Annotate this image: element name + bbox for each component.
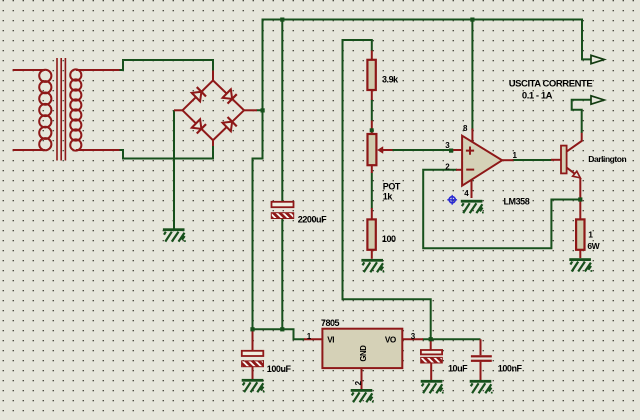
resistor 1 6W	[576, 200, 584, 259]
wire: bridge DC+ junction down-left-down to 7805 input node	[253, 110, 263, 329]
svg-text:VI: VI	[327, 336, 334, 345]
junction node (emitter / feedback)	[578, 197, 582, 201]
svg-text:1k: 1k	[383, 191, 394, 201]
ground (divider bottom)	[361, 259, 384, 273]
bridge rectifier frame	[174, 71, 257, 147]
label 6W	[587, 241, 600, 251]
pin number 2 (op-amp)	[445, 162, 450, 171]
svg-text:2200uF: 2200uF	[298, 214, 327, 224]
ground (100uF)	[242, 379, 265, 393]
svg-text:7805: 7805	[321, 318, 340, 328]
wire: op-amp output to darlington base	[513, 159, 552, 161]
svg-text:VO: VO	[385, 336, 397, 345]
wire: input node to 7805 VI pin	[253, 329, 305, 339]
ground (10uF)	[421, 380, 444, 394]
junction node (rail / 2200uF)	[280, 18, 284, 22]
ground (op-amp pin 4)	[461, 200, 484, 214]
junction node (bridge DC+)	[261, 108, 265, 112]
pin number 1 (op-amp out)	[513, 151, 518, 160]
output terminal arrow 1	[591, 55, 604, 63]
label 1 (resistor value)	[588, 230, 593, 240]
label 3.9k	[382, 74, 399, 84]
svg-text:100nF: 100nF	[498, 364, 523, 374]
label USCITA CORRENTE	[509, 79, 593, 90]
label 7805	[321, 318, 340, 328]
svg-text:0.1 - 1A: 0.1 - 1A	[522, 91, 553, 102]
label 100	[382, 234, 396, 244]
svg-text:GND: GND	[359, 345, 368, 362]
diode D1 top-left	[191, 87, 206, 102]
pin number 8 (op-amp)	[463, 124, 468, 133]
capacitor 2200uF	[271, 202, 293, 219]
wire: 3.9k bottom to POT top	[371, 100, 373, 121]
label GND rotated	[359, 345, 368, 362]
pin number 2 (7805 GND) rotated	[354, 380, 363, 385]
regulator U2 7805	[304, 329, 423, 389]
wire: bridge DC- down to ground	[173, 110, 175, 228]
transformer TR1 secondary winding	[70, 69, 119, 150]
pin number 4 (op-amp)	[464, 189, 469, 198]
label 10uF	[448, 364, 468, 374]
label Darlington	[588, 154, 626, 164]
wire: POT bottom to 100 resistor top	[371, 173, 373, 209]
wire: output terminal 2 to darlington collector	[572, 100, 592, 133]
transformer TR1 core	[57, 58, 65, 161]
svg-text:Darlington: Darlington	[588, 154, 626, 164]
capacitor 10uF	[421, 339, 443, 380]
diode D4 bottom-right	[222, 117, 237, 132]
op-amp U1 LM358	[453, 129, 514, 199]
potentiometer POT 1k	[368, 121, 393, 174]
ground (1 ohm resistor)	[569, 258, 592, 272]
capacitor 100uF	[242, 329, 264, 379]
wire: rail drop to 2200uF top	[281, 20, 283, 202]
ground (bridge DC-)	[163, 228, 186, 242]
ground (7805 GND pin)	[351, 389, 374, 403]
svg-text:USCITA CORRENTE: USCITA CORRENTE	[509, 79, 593, 90]
svg-text:1: 1	[588, 230, 593, 240]
label 100nF	[498, 364, 523, 374]
label LM358	[504, 196, 530, 206]
diode D3 bottom-left	[191, 119, 206, 134]
wire: transformer secondary top to bridge top	[120, 60, 214, 71]
svg-text:3.9k: 3.9k	[382, 74, 399, 84]
transformer TR1 primary winding	[13, 70, 52, 151]
junction node (POT top)	[370, 128, 374, 132]
junction node (VO / 10uF)	[429, 337, 433, 341]
label 2200uF	[298, 214, 327, 224]
transistor Q1 Darlington	[551, 133, 582, 200]
wire: 2200uF bottom down to input node	[281, 218, 283, 329]
junction node (op-amp pin 3)	[449, 149, 453, 153]
diode D2 top-right	[222, 89, 237, 104]
label 0.1 - 1A	[522, 91, 553, 102]
label VO	[385, 336, 397, 345]
wire: transformer secondary bottom to bridge bottom	[120, 146, 214, 159]
label VI	[327, 336, 334, 345]
pin number 1 (7805 VI)	[307, 332, 312, 341]
ground (100nF)	[470, 380, 493, 394]
junction node (rail / pin8)	[470, 18, 474, 22]
wire: VO node up and across to 3.9k top	[343, 40, 431, 339]
svg-text:POT: POT	[383, 182, 401, 192]
label 100uF	[267, 364, 292, 374]
output terminal arrow 2	[591, 96, 604, 104]
wire: POT wiper to op-amp pin 3	[392, 149, 452, 151]
capacitor 100nF	[471, 339, 492, 380]
label 1k	[383, 191, 394, 201]
pin number 3 (op-amp)	[445, 141, 450, 150]
wire: feedback loop from op-amp pin 2 around to emitter node	[423, 170, 579, 248]
svg-text:100: 100	[382, 234, 396, 244]
svg-text:LM358: LM358	[504, 196, 530, 206]
wire: 7805 VO output node	[423, 338, 481, 340]
junction node (input node / 2200uF bottom)	[280, 327, 284, 331]
svg-text:10uF: 10uF	[448, 364, 468, 374]
resistor 3.9k	[367, 51, 375, 101]
svg-text:100uF: 100uF	[267, 364, 292, 374]
label POT	[383, 182, 401, 192]
wire: DC+ rail from bridge junction up and across top to output, down right side	[263, 20, 592, 111]
junction node (input node / 100uF)	[250, 327, 254, 331]
no-connect blue marker	[447, 195, 457, 205]
svg-text:6W: 6W	[587, 241, 600, 251]
pin number 3 (7805 VO)	[411, 332, 416, 341]
wire: rail drop to op-amp pin 8	[471, 20, 473, 131]
resistor 100	[367, 208, 375, 259]
